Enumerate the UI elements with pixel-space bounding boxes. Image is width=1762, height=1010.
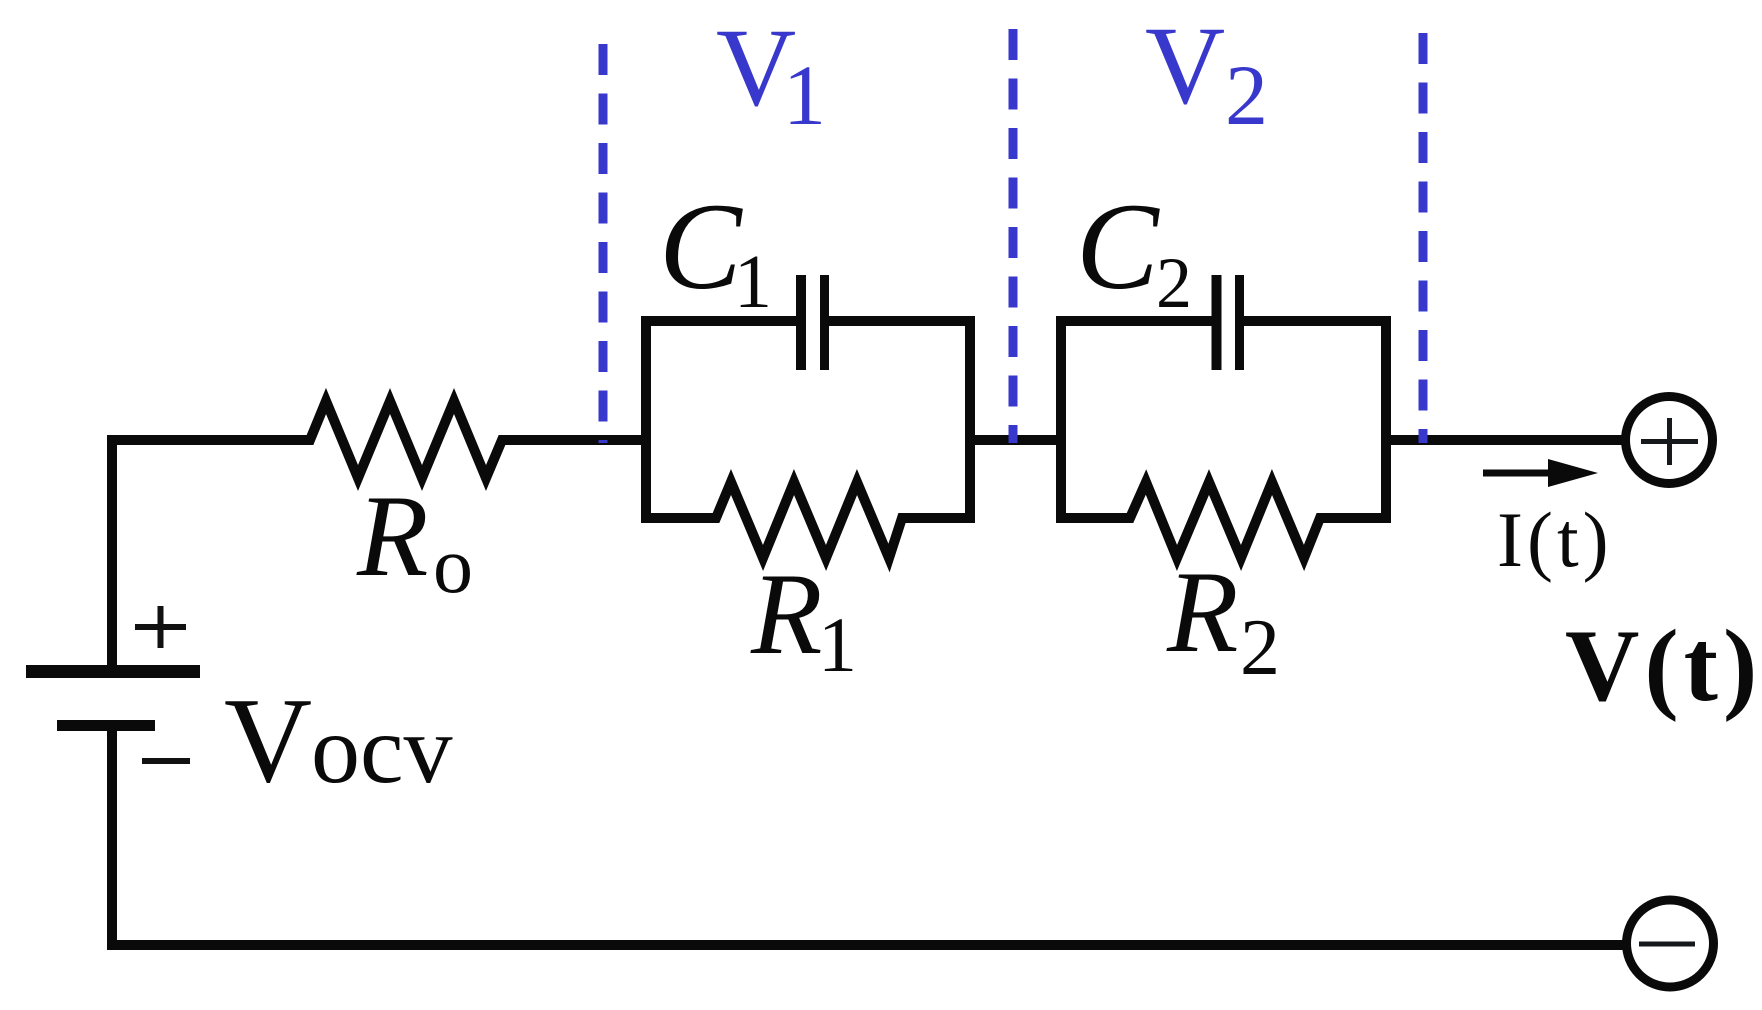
- capacitor C1 right plate: [820, 275, 829, 370]
- wire: RC2 right branch frame: [1243, 321, 1386, 518]
- terminal - circle: [1627, 900, 1714, 987]
- svg-text:2: 2: [1240, 604, 1280, 692]
- terminal + circle: [1626, 397, 1713, 484]
- terminal - sign: [1639, 942, 1695, 947]
- battery Vocv positive (long) plate: [26, 665, 200, 678]
- svg-text:R: R: [356, 472, 428, 601]
- battery + polarity sign: [135, 606, 186, 648]
- svg-text:o: o: [433, 522, 473, 610]
- svg-text:1: 1: [783, 47, 826, 143]
- svg-text:1: 1: [818, 601, 857, 688]
- boundary line V1/V2 middle (blue dashed): [1009, 29, 1018, 443]
- svg-text:V: V: [224, 673, 312, 808]
- capacitor C2 left plate: [1212, 275, 1222, 370]
- capacitor C2 right plate: [1235, 275, 1244, 370]
- svg-text:1: 1: [734, 240, 772, 324]
- wire: Ro to RC pair 1: [502, 435, 646, 445]
- resistor R2: [1123, 482, 1327, 558]
- svg-text:C: C: [659, 178, 743, 315]
- current arrow I(t): [1483, 459, 1598, 487]
- boundary line V2 right (blue dashed): [1419, 33, 1428, 443]
- svg-text:R: R: [750, 550, 822, 679]
- wire: RC2 to positive terminal: [1386, 435, 1625, 445]
- resistor R1: [709, 482, 909, 558]
- svg-text:V: V: [1145, 5, 1225, 128]
- svg-text:V(t): V(t): [1565, 609, 1762, 723]
- svg-text:I(t): I(t): [1497, 496, 1613, 583]
- svg-text:R: R: [1166, 548, 1238, 677]
- wire: battery negative down and bottom return to negative terminal: [112, 726, 1626, 945]
- wire: RC1 right branch frame: [827, 321, 970, 518]
- boundary line V1 left (blue dashed): [599, 44, 608, 443]
- svg-text:2: 2: [1225, 47, 1268, 143]
- wire: RC1 to RC2: [970, 435, 1061, 445]
- svg-text:C: C: [1076, 178, 1160, 315]
- svg-text:2: 2: [1156, 243, 1192, 323]
- wire: battery positive plate up and across to Ro: [112, 440, 311, 668]
- terminal + sign: [1641, 418, 1698, 465]
- battery - polarity sign: [142, 758, 190, 764]
- svg-text:ocv: ocv: [311, 696, 453, 804]
- capacitor C1 left plate: [796, 275, 806, 370]
- resistor Ro: [303, 401, 509, 478]
- wire: RC2 left branch frame: [1061, 321, 1212, 518]
- wire: RC1 left branch frame: [646, 321, 797, 518]
- battery Vocv negative (short) plate: [57, 720, 155, 731]
